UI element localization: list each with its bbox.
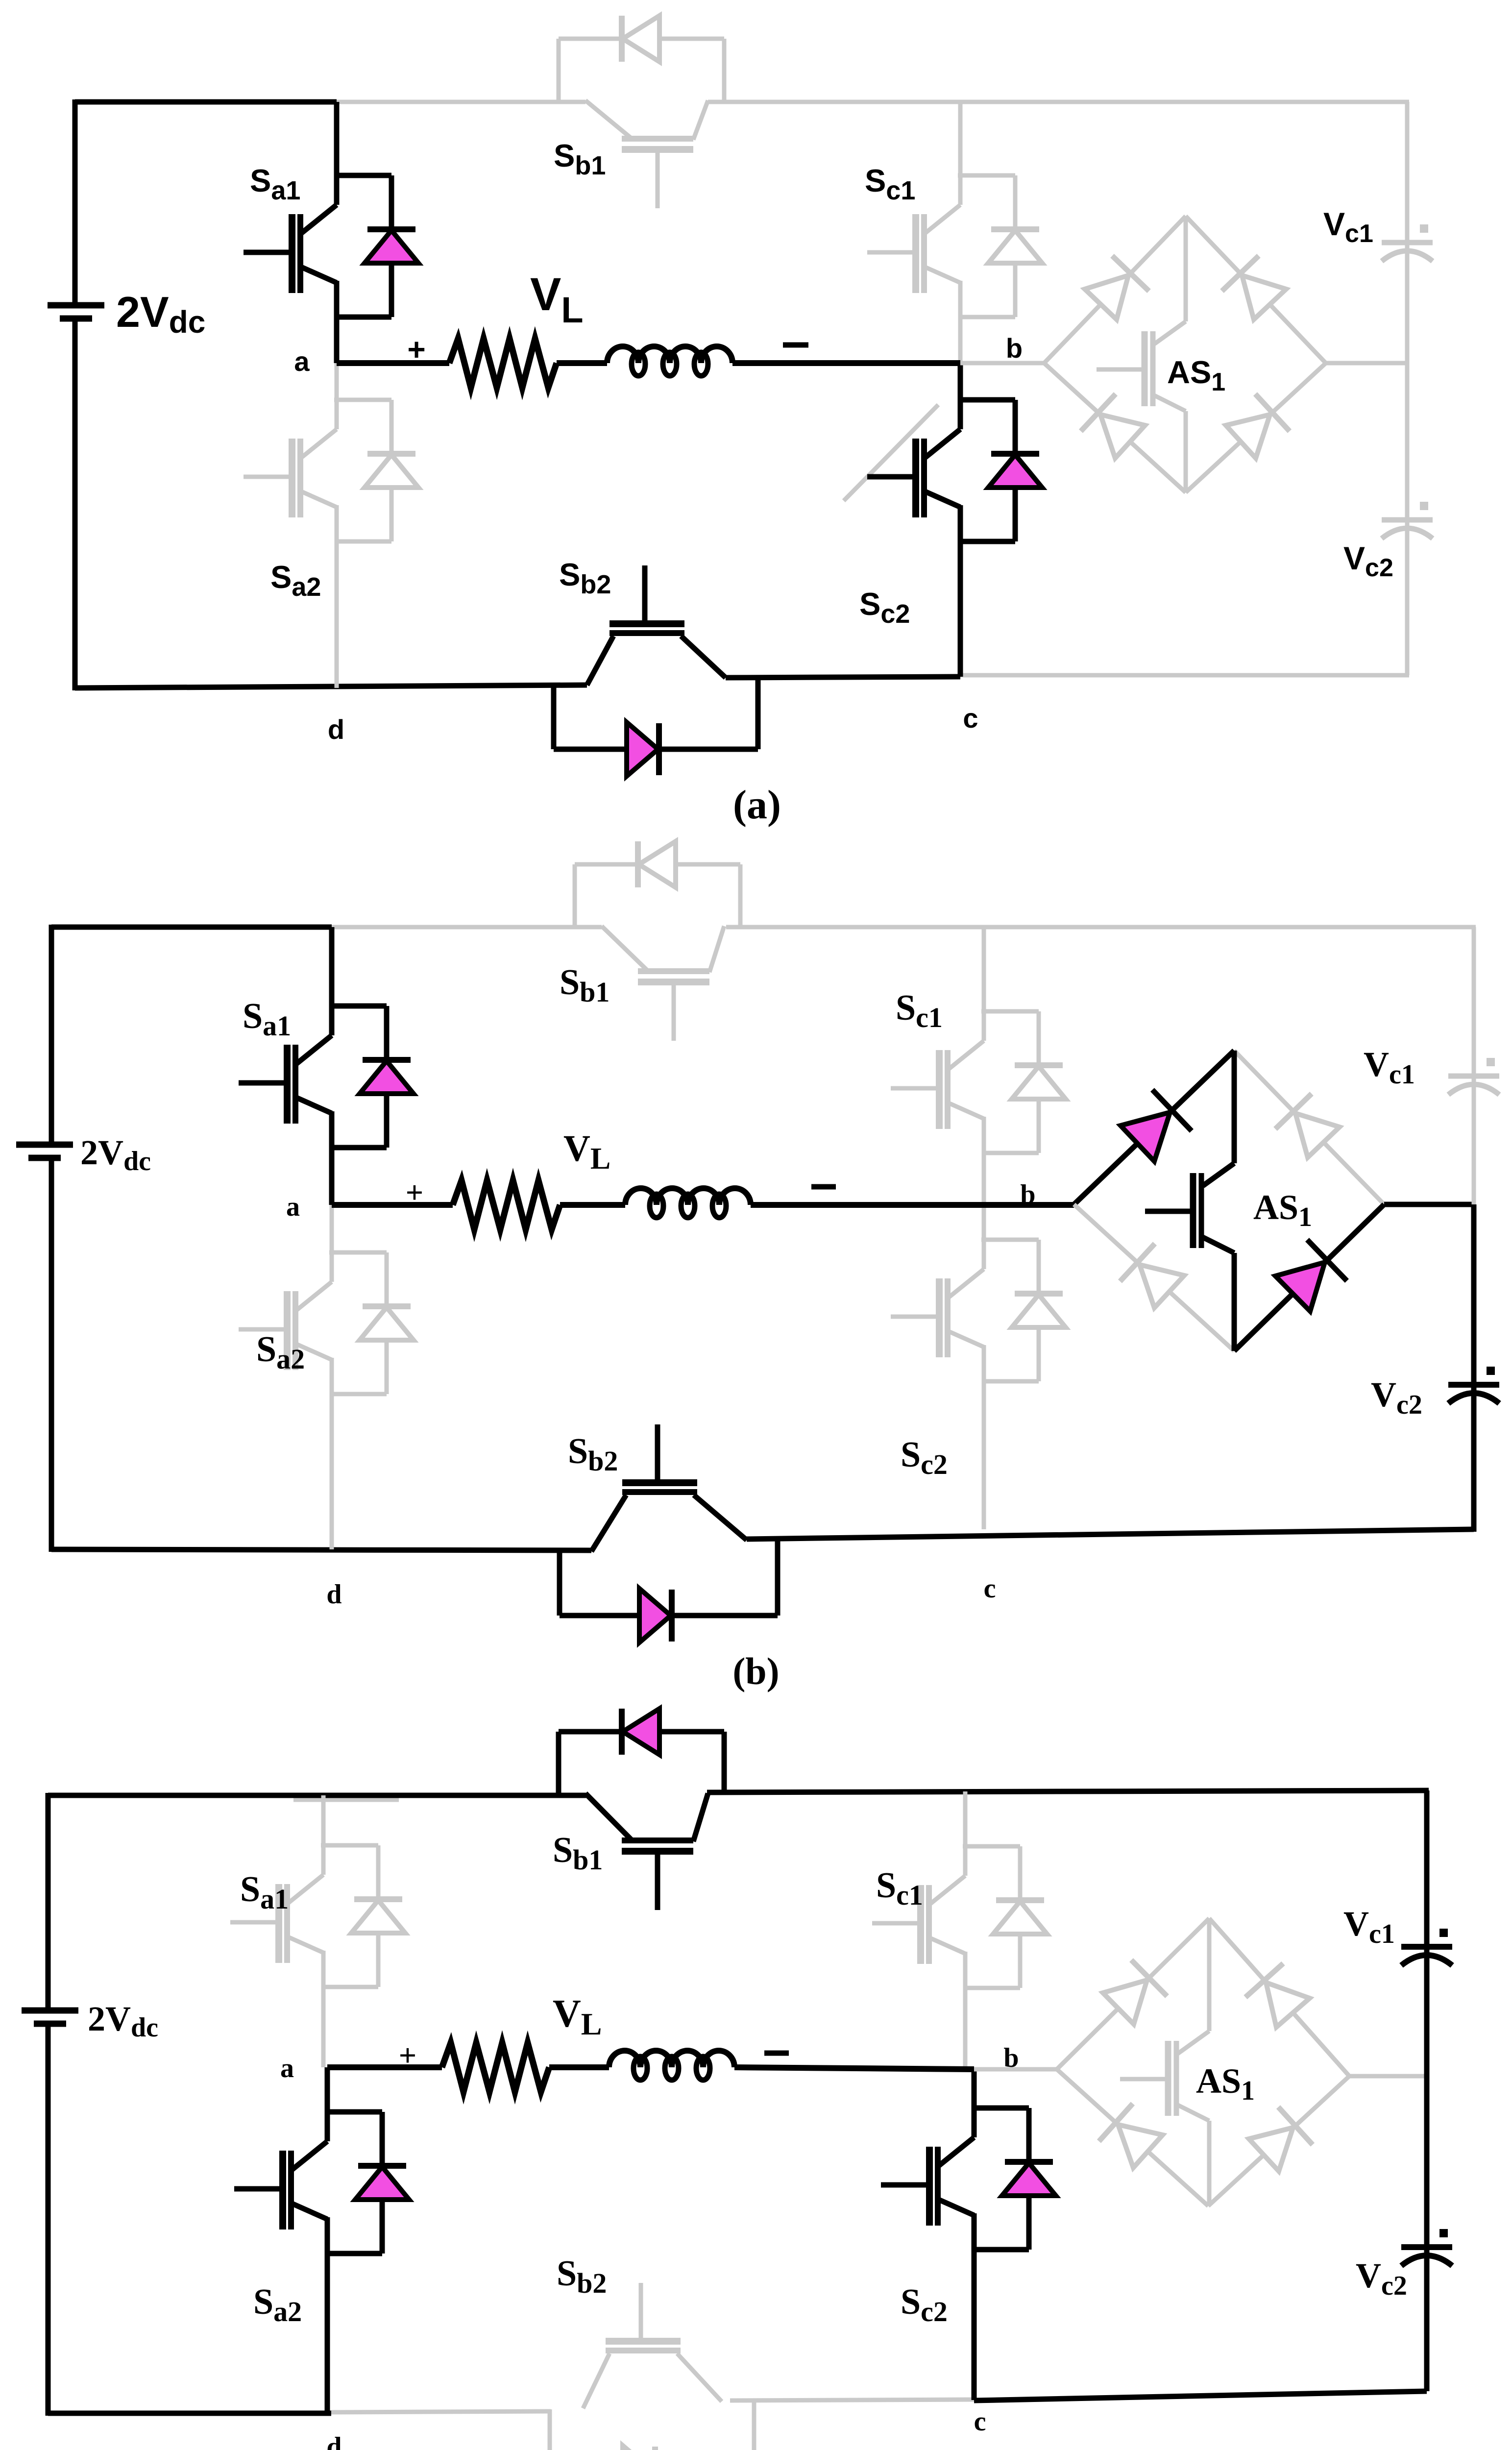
- freewheel diode of Sc1 (b): [981, 1011, 1066, 1153]
- wire: bridge diagonal L-T gray: [1044, 216, 1186, 363]
- stray gray slash over Sc2: [844, 405, 938, 501]
- svg-text:Vc2: Vc2: [1371, 1375, 1422, 1420]
- capacitor Vc2 (a): [1382, 502, 1433, 539]
- wire: bottom rail gray d to Sb2: [331, 2411, 551, 2412]
- bridge diode D2 (T-R): [1222, 256, 1286, 319]
- svg-text:b: b: [1006, 333, 1023, 364]
- svg-text:Sc1: Sc1: [876, 1865, 923, 1911]
- wire: left rail lower: [73, 318, 78, 690]
- wire: left rail upper: [73, 99, 78, 305]
- wire: resistor to inductor: [549, 2064, 609, 2070]
- wire: node a to resistor: [337, 360, 449, 366]
- svg-text:Vc1: Vc1: [1323, 206, 1373, 248]
- IGBT Sa1 (b): [239, 1035, 332, 1205]
- svg-text:VL: VL: [553, 1992, 602, 2041]
- wire: right rail gray: [1405, 102, 1410, 675]
- freewheel diode of Sb2: [554, 678, 758, 776]
- IGBT Sb1: [585, 100, 708, 208]
- wire: Sc1 collector stub gray: [958, 102, 963, 205]
- svg-text:Sa1: Sa1: [243, 996, 291, 1042]
- svg-text:2Vdc: 2Vdc: [88, 1999, 158, 2043]
- resistor R load (c): [442, 2043, 549, 2092]
- svg-text:Vc1: Vc1: [1364, 1045, 1415, 1090]
- wire: Sc2 collector stub black: [972, 2069, 977, 2137]
- wire: bridge right vertex to rail gray: [1349, 2074, 1427, 2079]
- freewheel diode of Sb1: [559, 16, 724, 100]
- wire: bridge right vertex to rail black: [1384, 1202, 1474, 1207]
- svg-text:c: c: [974, 2406, 986, 2437]
- wire: top rail gray right: [708, 100, 1409, 104]
- freewheel diode of Sc1: [958, 175, 1042, 317]
- freewheel diode of Sa2 (c): [325, 2112, 409, 2254]
- freewheel diode of Sc1 (c): [963, 1846, 1047, 1988]
- wire: left rail upper: [49, 925, 54, 1145]
- svg-text:2Vdc: 2Vdc: [80, 1133, 151, 1176]
- bridge diode D3 (L-B): [1099, 2104, 1163, 2168]
- svg-text:Sa1: Sa1: [240, 1869, 289, 1915]
- bridge diode D1 (L-T) magenta: [1121, 1090, 1192, 1161]
- wire: Sa1 collector stub: [329, 927, 335, 1035]
- wire: bottom rail black left to d: [48, 2411, 331, 2416]
- resistor R load (a): [449, 339, 557, 388]
- wire: bottom rail gray Sb2 to c: [730, 2400, 974, 2401]
- IGBT Sb1 (c): [585, 1793, 708, 1910]
- wire: bridge diagonal L-B gray: [1074, 1204, 1234, 1351]
- wire: bridge diagonal L-B gray: [1044, 363, 1186, 492]
- freewheel diode of Sa1 (c): [321, 1845, 405, 1987]
- freewheel diode of Sa1 (b): [329, 1006, 414, 1148]
- IGBT Sc2: [867, 429, 960, 677]
- wire: bottom rail Sb2 to right corner: [747, 1529, 1474, 1539]
- freewheel diode of Sa2: [334, 400, 418, 541]
- svg-text:(b): (b): [732, 1650, 779, 1692]
- wire: node b to bridge gray: [974, 2067, 1057, 2072]
- IGBT Sb2 (c): [583, 2283, 722, 2408]
- IGBT AS1 (b) black: [1145, 1051, 1234, 1351]
- battery 2Vdc (b): [16, 1145, 73, 1158]
- IGBT Sa2 (c): [234, 2141, 327, 2413]
- wire: bottom rail gray c to right: [960, 673, 1409, 678]
- IGBT Sc2 (c): [881, 2137, 974, 2400]
- wire: bridge diagonal T-R gray: [1186, 216, 1326, 363]
- wire: resistor to inductor: [557, 360, 607, 366]
- svg-text:a: a: [294, 346, 310, 377]
- freewheel diode of Sc2 (b): [981, 1240, 1066, 1381]
- wire: Sa1 collector stub gray: [321, 1795, 326, 1875]
- IGBT Sb1 (b): [602, 926, 724, 1041]
- wire: right rail black lower: [1471, 1204, 1477, 1532]
- wire: left rail lower: [46, 2023, 51, 2416]
- freewheel diode of Sb1 (b): [575, 841, 740, 926]
- capacitor Vc2 (c): [1401, 2229, 1452, 2266]
- svg-text:Vc2: Vc2: [1356, 2256, 1407, 2301]
- capacitor Vc1 (c): [1401, 1929, 1452, 1965]
- svg-text:VL: VL: [563, 1128, 610, 1176]
- wire: Sc2 collector stub gray: [982, 1205, 986, 1269]
- wire: bridge diagonal B-R black: [1234, 1204, 1384, 1351]
- wire: Sc1 collector stub gray: [982, 927, 986, 1041]
- bridge diode D4 (B-R) magenta: [1275, 1240, 1347, 1311]
- IGBT Sc1: [867, 205, 960, 363]
- svg-text:Sa2: Sa2: [270, 559, 321, 602]
- wire: bottom rail Sb2 to c: [726, 677, 960, 678]
- IGBT Sa1: [244, 205, 337, 363]
- inductor L load (a): [607, 346, 732, 363]
- svg-text:a: a: [280, 2053, 294, 2083]
- wire: top rail black left: [48, 1793, 586, 1798]
- wire: inductor to node b: [732, 360, 960, 366]
- wire: bridge diagonal L-T black: [1074, 1051, 1234, 1204]
- svg-text:d: d: [326, 2432, 341, 2450]
- svg-text:2Vdc: 2Vdc: [116, 288, 205, 340]
- wire: top rail gray middle: [337, 100, 585, 104]
- IGBT Sb2: [587, 565, 726, 685]
- svg-text:Sc2: Sc2: [901, 2282, 948, 2327]
- wire: Sc1 collector stub gray: [963, 1791, 968, 1876]
- IGBT Sa2: [244, 429, 337, 688]
- bridge diode D1 (L-T): [1085, 256, 1149, 319]
- wire: Sa2 collector stub black: [325, 2067, 330, 2141]
- wire: Sa2 collector stub gray: [330, 1205, 334, 1282]
- wire: top rail black right: [707, 1790, 1429, 1792]
- wire: bottom rail black c to right corner: [974, 2391, 1427, 2401]
- freewheel diode of Sb2 (c): [550, 2401, 754, 2450]
- svg-text:+: +: [406, 1175, 423, 1210]
- freewheel diode of Sb2 (b): [560, 1540, 778, 1642]
- svg-text:Sb1: Sb1: [560, 962, 610, 1008]
- wire: left rail upper: [46, 1793, 51, 2010]
- wire: left rail lower: [49, 1158, 54, 1552]
- freewheel diode of Sa2 (b): [329, 1252, 414, 1394]
- svg-text:b: b: [1020, 1179, 1035, 1210]
- minus sign (a): [783, 343, 808, 348]
- wire: node a to resistor: [327, 2064, 442, 2070]
- svg-text:Sb2: Sb2: [557, 2254, 607, 2299]
- wire: inductor to node b: [751, 1202, 1074, 1208]
- capacitor Vc2 (b): [1448, 1367, 1499, 1403]
- freewheel diode of Sa1: [334, 175, 418, 317]
- minus sign (c): [764, 2051, 789, 2056]
- wire: bridge diagonal L-B gray: [1057, 2069, 1208, 2206]
- svg-text:a: a: [286, 1192, 300, 1222]
- wire: top rail gray middle: [332, 925, 602, 930]
- IGBT Sa1 (c): [230, 1875, 323, 2067]
- svg-text:Sb1: Sb1: [553, 1830, 603, 1876]
- bridge diode D3 (L-B) gray: [1120, 1244, 1184, 1308]
- wire: bridge diagonal B-R gray: [1186, 363, 1326, 492]
- svg-text:d: d: [326, 1579, 341, 1610]
- svg-text:+: +: [399, 2038, 416, 2073]
- svg-text:Sc2: Sc2: [859, 586, 910, 629]
- svg-text:Sb2: Sb2: [559, 557, 611, 599]
- battery 2Vdc (c): [22, 2010, 78, 2024]
- wire: bottom rail left to d: [51, 1549, 591, 1550]
- battery 2Vdc (a): [48, 305, 104, 318]
- bridge diode D3 (L-B): [1081, 394, 1145, 458]
- svg-text:Sb2: Sb2: [568, 1431, 618, 1477]
- inductor L load (c): [609, 2051, 734, 2067]
- bridge diode D4 (B-R): [1226, 394, 1290, 458]
- svg-text:Sa1: Sa1: [250, 163, 300, 205]
- svg-text:d: d: [328, 714, 344, 745]
- svg-text:(a): (a): [733, 782, 781, 828]
- wire: bridge right vertex to rail gray: [1326, 361, 1407, 366]
- svg-text:Vc1: Vc1: [1343, 1904, 1395, 1949]
- svg-text:AS1: AS1: [1196, 2061, 1255, 2106]
- freewheel diode of Sb1 (c): [559, 1709, 724, 1793]
- wire: Sa1 collector stub: [334, 102, 340, 205]
- wire: bridge diagonal T-R gray: [1209, 1918, 1349, 2076]
- freewheel diode of Sc2: [958, 400, 1042, 541]
- svg-text:Sa2: Sa2: [253, 2282, 302, 2327]
- wire: bridge diagonal B-R gray: [1208, 2076, 1349, 2206]
- svg-text:Sc1: Sc1: [865, 163, 915, 205]
- wire: top rail left black: [75, 99, 337, 105]
- wire: bottom rail left to d: [75, 685, 587, 688]
- svg-text:Vc2: Vc2: [1343, 540, 1393, 582]
- wire: bridge diagonal L-T gray: [1057, 1918, 1209, 2069]
- wire: right rail gray upper: [1472, 927, 1476, 1204]
- wire: bridge diagonal T-R gray: [1234, 1051, 1384, 1204]
- wire: right rail black: [1424, 1790, 1430, 2391]
- wire: Sc2 collector stub: [958, 363, 963, 429]
- wire: inductor to node b: [734, 2067, 974, 2069]
- IGBT Sc2 (b): [891, 1269, 984, 1529]
- wire: top rail left black: [51, 925, 332, 930]
- wire: Sa2 collector stub gray: [335, 363, 339, 429]
- bridge diode D2 (T-R): [1245, 1963, 1310, 2027]
- IGBT AS1 (a) gray: [1097, 216, 1186, 492]
- IGBT Sc1 (c): [872, 1876, 965, 2069]
- wire: node a to resistor: [332, 1202, 453, 1208]
- capacitor Vc1 (a): [1382, 224, 1433, 261]
- svg-text:c: c: [963, 703, 978, 734]
- gray underlay of top rail: [293, 1798, 399, 1802]
- inductor L load (b): [625, 1188, 751, 1205]
- svg-text:Sc1: Sc1: [896, 988, 943, 1033]
- minus sign (b): [811, 1184, 836, 1190]
- svg-text:Sc2: Sc2: [901, 1435, 948, 1480]
- IGBT Sb2 (b): [591, 1424, 747, 1551]
- capacitor Vc1 (b): [1448, 1058, 1499, 1095]
- svg-text:VL: VL: [530, 269, 584, 330]
- IGBT Sa2 (b): [239, 1282, 332, 1549]
- bridge diode D4 (B-R): [1249, 2107, 1313, 2171]
- IGBT Sc1 (b): [891, 1041, 984, 1205]
- freewheel diode of Sc2 (c): [972, 2108, 1056, 2250]
- svg-text:+: +: [407, 332, 425, 367]
- wire: resistor to inductor: [560, 1202, 625, 1208]
- svg-text:AS1: AS1: [1167, 354, 1225, 396]
- svg-text:AS1: AS1: [1253, 1188, 1312, 1232]
- IGBT AS1 (c) gray: [1120, 1918, 1209, 2206]
- bridge diode D2 (T-R) gray: [1275, 1094, 1340, 1157]
- svg-text:c: c: [984, 1573, 996, 1604]
- bridge diode D1 (L-T): [1103, 1960, 1167, 2024]
- svg-text:Sb1: Sb1: [554, 138, 606, 180]
- wire: top rail gray right: [726, 925, 1476, 930]
- wire: node b to bridge gray: [960, 361, 1044, 366]
- resistor R load (b): [453, 1180, 560, 1229]
